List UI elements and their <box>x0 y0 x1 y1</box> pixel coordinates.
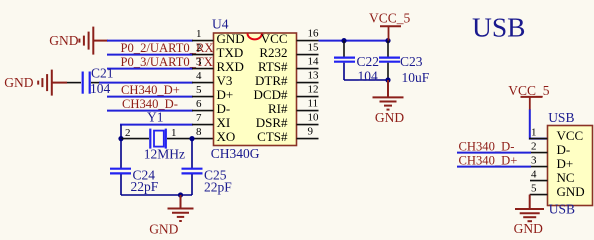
svg-text:4: 4 <box>196 70 202 82</box>
ground GND2 (power ground, left of C21) <box>38 70 67 96</box>
wire XI pin7 to crystal <box>120 125 193 139</box>
svg-text:2: 2 <box>125 127 131 139</box>
svg-text:15: 15 <box>308 42 320 54</box>
wire VCC_5 down to USB pin1 <box>530 110 548 139</box>
svg-text:1: 1 <box>531 127 537 139</box>
capacitor C25 <box>182 169 203 195</box>
svg-text:V3: V3 <box>217 73 233 88</box>
ground GND1 (power ground, top-left) <box>79 27 108 55</box>
node junction at VCC_5 / C23 top <box>385 38 390 43</box>
svg-text:C22: C22 <box>357 54 380 69</box>
IC U4 right pin numbers <box>308 28 320 138</box>
svg-text:3: 3 <box>531 155 537 167</box>
svg-text:TXD: TXD <box>217 45 244 60</box>
svg-text:14: 14 <box>308 56 320 68</box>
svg-text:USB: USB <box>472 12 526 43</box>
svg-text:XO: XO <box>217 129 236 144</box>
svg-text:U4: U4 <box>212 17 229 32</box>
svg-text:CH340_D+: CH340_D+ <box>459 153 518 167</box>
connector USB pin numbers <box>531 127 537 195</box>
ground GND3 (below C22 C23) <box>373 80 404 110</box>
svg-text:CH340_D+: CH340_D+ <box>121 83 180 97</box>
connector USB pin names <box>557 128 585 199</box>
wire pin3 net <box>107 68 193 70</box>
node junction at C22 top <box>341 38 346 43</box>
node junction at crystal pin1 / XO <box>189 136 194 141</box>
svg-text:USB: USB <box>549 202 575 217</box>
svg-text:D-: D- <box>217 101 231 116</box>
svg-text:GND: GND <box>217 31 245 46</box>
svg-text:GND: GND <box>514 221 543 236</box>
svg-text:CH340G: CH340G <box>211 146 260 161</box>
svg-text:11: 11 <box>308 98 319 110</box>
svg-text:CTS#: CTS# <box>257 129 288 144</box>
wire bottom rail C24 to C25 <box>121 194 192 196</box>
svg-text:GND: GND <box>4 75 33 90</box>
node junction at caps bottom / GND <box>385 77 390 82</box>
svg-text:VCC_5: VCC_5 <box>369 11 411 26</box>
svg-text:DTR#: DTR# <box>255 73 288 88</box>
svg-text:RXD: RXD <box>217 59 244 74</box>
svg-text:GND: GND <box>149 221 178 236</box>
svg-text:5: 5 <box>196 84 202 96</box>
IC U4 left pin names <box>217 31 245 144</box>
svg-text:8: 8 <box>196 126 202 138</box>
svg-text:22pF: 22pF <box>131 179 159 194</box>
power VCC_5 symbol (USB section) <box>521 97 543 110</box>
connector J-USB body <box>548 126 593 206</box>
capacitor C23 <box>379 41 400 80</box>
crystal Y1 <box>121 129 214 149</box>
wire pin4 net <box>99 82 193 84</box>
svg-text:DCD#: DCD# <box>254 87 288 102</box>
wire VCC pin16 to decoupling caps <box>319 40 390 42</box>
svg-text:3: 3 <box>196 56 202 68</box>
svg-text:D+: D+ <box>217 87 234 102</box>
svg-text:C23: C23 <box>400 54 423 69</box>
svg-text:7: 7 <box>196 112 202 124</box>
node junction at crystal pin2 <box>118 136 123 141</box>
IC U4 right pin stubs 16-9 <box>297 41 319 139</box>
svg-text:22pF: 22pF <box>204 179 232 194</box>
svg-text:5: 5 <box>531 183 537 195</box>
svg-text:C21: C21 <box>91 65 114 80</box>
svg-text:16: 16 <box>308 28 320 40</box>
wire pin1 net <box>107 40 193 42</box>
svg-text:D-: D- <box>557 142 571 157</box>
wire USB D- <box>457 152 531 154</box>
svg-text:104: 104 <box>358 68 379 83</box>
ground GND4 (below crystal caps) <box>168 195 194 221</box>
node junction at GND of crystal caps <box>178 192 183 197</box>
connector USB pin stubs 1-5 <box>529 139 548 195</box>
svg-text:USB: USB <box>548 110 574 125</box>
capacitor C22 <box>334 41 388 80</box>
svg-text:VCC_5: VCC_5 <box>508 83 550 98</box>
svg-text:CH340_D-: CH340_D- <box>459 139 515 153</box>
svg-text:D+: D+ <box>557 156 574 171</box>
svg-text:DSR#: DSR# <box>256 115 288 130</box>
wire crystal right leg down to C25 <box>191 139 193 168</box>
svg-text:XI: XI <box>217 115 231 130</box>
svg-text:R232: R232 <box>259 45 287 60</box>
wire pin6 net <box>107 110 193 112</box>
svg-text:2: 2 <box>531 141 537 153</box>
power VCC_5 symbol (top) <box>380 26 401 40</box>
capacitor C24 <box>110 169 131 195</box>
svg-text:10: 10 <box>308 112 320 124</box>
IC U4 right pin names <box>254 31 288 144</box>
wire crystal left leg down to C24 <box>120 139 122 168</box>
capacitor C21 <box>67 72 100 94</box>
svg-text:10uF: 10uF <box>402 70 430 85</box>
svg-text:6: 6 <box>196 98 202 110</box>
svg-text:RI#: RI# <box>268 101 288 116</box>
wire pin2 net <box>107 54 193 56</box>
svg-text:4: 4 <box>531 169 537 181</box>
IC U4 left pin numbers <box>196 28 202 138</box>
ground GND5 (USB) <box>515 195 544 222</box>
svg-text:VCC: VCC <box>261 31 288 46</box>
svg-text:1: 1 <box>171 127 177 139</box>
IC U4 CH340G body <box>214 33 297 146</box>
svg-text:RTS#: RTS# <box>258 59 288 74</box>
svg-text:1: 1 <box>196 28 202 40</box>
svg-text:GND: GND <box>375 110 404 125</box>
svg-text:VCC: VCC <box>557 128 584 143</box>
svg-text:Y1: Y1 <box>147 110 164 125</box>
svg-text:GND: GND <box>49 33 78 48</box>
wire pin5 net <box>107 96 193 98</box>
svg-text:12: 12 <box>308 84 319 96</box>
IC U4 pin-1 notch arc <box>248 33 262 39</box>
svg-text:12MHz: 12MHz <box>144 147 185 162</box>
wire USB D+ <box>457 166 531 168</box>
svg-text:13: 13 <box>308 70 320 82</box>
svg-text:9: 9 <box>308 126 314 138</box>
svg-text:GND: GND <box>557 184 585 199</box>
svg-text:NC: NC <box>557 170 575 185</box>
svg-text:2: 2 <box>196 42 202 54</box>
IC U4 left pin stubs 1-8 <box>192 41 214 125</box>
